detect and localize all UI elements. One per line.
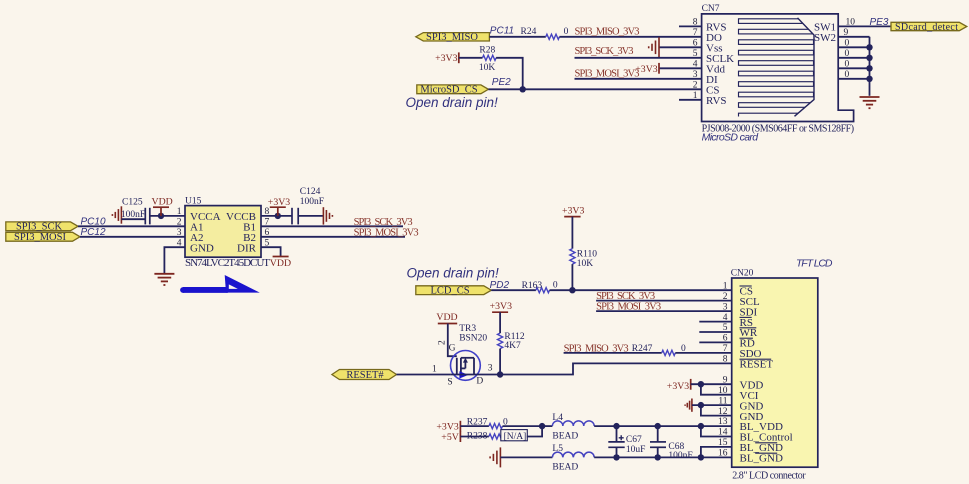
svg-text:C67: C67	[626, 435, 642, 445]
svg-text:SN74LVC2T45DCUT: SN74LVC2T45DCUT	[185, 257, 270, 269]
svg-text:L5: L5	[552, 444, 563, 454]
svg-text:MicroSD card: MicroSD card	[702, 132, 760, 144]
net label SPI3_SCK_3V3 (U15)	[354, 217, 413, 228]
power +3V3 (BL)	[436, 421, 460, 433]
designator TR3	[459, 324, 487, 344]
svg-text:+3V3: +3V3	[435, 53, 457, 64]
text 2.8 inch LCD connector	[732, 470, 806, 481]
port SPI3_MOSI	[6, 232, 80, 243]
junction pin11	[698, 402, 704, 408]
wire U15 pin7 SPI3_SCK_3V3	[261, 225, 403, 227]
svg-text:SPI3_MISO_3V3: SPI3_MISO_3V3	[575, 27, 640, 38]
wire SPI3_MISO to R24	[489, 36, 545, 38]
wire SPI3_MOSI_3V3 to CN7 pin3	[575, 78, 702, 80]
svg-text:7: 7	[693, 28, 698, 38]
power +3V3 (U15 pin8)	[268, 197, 290, 216]
junction C67 bottom	[613, 454, 619, 460]
svg-text:0: 0	[845, 49, 850, 59]
wire R238 to node	[527, 426, 542, 436]
power VDD (DIR)	[270, 258, 291, 269]
junction R237/R238	[539, 423, 545, 429]
power VDD (TR3 gate)	[436, 312, 457, 323]
wire pin9 to pin10	[701, 384, 732, 395]
CN7 pin 1 stub	[679, 99, 702, 101]
sheet entry label PC11	[490, 26, 514, 37]
designator CN7	[702, 4, 720, 14]
svg-text:BEAD: BEAD	[552, 463, 578, 473]
capacitor C67 (polarized)	[608, 426, 645, 457]
wire LCD_CS to R163	[491, 289, 536, 291]
ground below U15	[154, 274, 174, 285]
svg-text:Open drain pin!: Open drain pin!	[407, 266, 500, 281]
CN7 pin10 wire to port	[838, 25, 891, 27]
U15 left pin numbers	[177, 207, 182, 248]
net label SPI3_MISO_3V3	[575, 27, 640, 38]
junction R110/CS	[569, 287, 575, 293]
sheet entry label PC10	[81, 217, 106, 228]
resistor R28	[479, 46, 496, 74]
wire SPI3_MISO_3V3 to R247	[564, 352, 662, 354]
svg-text:0: 0	[553, 281, 558, 291]
svg-text:PE3: PE3	[870, 17, 889, 28]
port SPI3_SCK	[6, 222, 78, 233]
CN20 pin4 stub	[699, 321, 731, 323]
wire R110 to LCD_CS net	[571, 264, 573, 290]
svg-text:C125: C125	[122, 197, 143, 207]
wire SPI3_SCK to U15 pin2	[78, 225, 185, 227]
ground below CN7	[860, 97, 880, 108]
svg-text:SPI3_SCK: SPI3_SCK	[16, 222, 63, 233]
svg-text:R238: R238	[467, 432, 488, 442]
wire R112 to drain	[499, 349, 501, 375]
TR3 gate label G	[449, 343, 456, 353]
svg-text:TFT LCD: TFT LCD	[796, 258, 833, 270]
wire SPI3_SCK_3V3 to CN7 pin5	[575, 57, 702, 59]
svg-text:1: 1	[177, 207, 182, 217]
CN7 left pin numbers	[693, 18, 698, 101]
svg-text:VDD: VDD	[152, 196, 173, 207]
power +5V (BL)	[441, 431, 460, 443]
port SPI3_MISO	[416, 32, 490, 43]
svg-text:10K: 10K	[479, 63, 496, 73]
junction R112-drain	[497, 371, 503, 377]
wire MicroSD_CS to CN7 pin2	[488, 88, 701, 90]
connector CN20 box	[732, 278, 818, 467]
wire U15 pin6 SPI3_MOSI_3V3	[261, 236, 405, 238]
TR3 pin1 label	[432, 365, 437, 375]
inductor L5 BEAD	[552, 444, 594, 473]
wire gnd to C125	[121, 218, 145, 220]
junction dots on card-detect bus	[866, 44, 872, 82]
resistor R112	[498, 332, 525, 351]
resistor R237	[467, 417, 508, 428]
svg-text:1: 1	[693, 91, 698, 101]
sheet entry label PD2	[490, 280, 510, 291]
svg-text:VDD: VDD	[270, 258, 291, 269]
svg-text:LCD_CS: LCD_CS	[430, 285, 469, 296]
svg-text:1: 1	[723, 281, 728, 291]
svg-text:G: G	[449, 343, 456, 353]
wire U15 pin4 GND	[164, 247, 185, 273]
port SDcard_detect	[891, 22, 967, 33]
text Open drain pin! (bottom)	[407, 266, 500, 281]
svg-text:SPI3_MISO: SPI3_MISO	[426, 32, 478, 43]
net label SPI3_SCK_3V3 (CN20)	[596, 291, 655, 302]
port RESET#	[332, 370, 397, 382]
ground at C124	[323, 207, 332, 224]
ground at C125	[112, 206, 121, 223]
svg-text:PE2: PE2	[492, 77, 511, 88]
CN20 pin6 stub	[699, 341, 731, 343]
svg-text:C124: C124	[300, 187, 321, 197]
CN7 SW1 SW2 labels	[814, 21, 836, 44]
wire R247 to CN20 pin7	[675, 352, 731, 354]
power VDD (U15 pin1)	[152, 196, 173, 216]
resistor R110	[570, 249, 597, 269]
svg-text:SPI3_SCK_3V3: SPI3_SCK_3V3	[575, 46, 634, 57]
capacitor C68	[650, 426, 693, 461]
svg-text:CN7: CN7	[702, 4, 720, 14]
svg-text:10K: 10K	[577, 259, 594, 269]
wire pin13 to pin14	[701, 426, 732, 436]
CN7 pin 9 number	[844, 28, 849, 38]
svg-text:+3V3: +3V3	[268, 197, 290, 208]
svg-text:GND: GND	[190, 242, 214, 254]
CN7 right pin stubs	[838, 37, 869, 79]
power +3V3 (CN20 pin9)	[667, 379, 732, 392]
svg-text:[N/A]: [N/A]	[504, 432, 527, 442]
wire R28 to MicroSD_CS net	[496, 58, 523, 90]
svg-text:0: 0	[845, 70, 850, 80]
svg-text:0: 0	[845, 38, 850, 48]
text TFT LCD	[796, 258, 833, 270]
svg-text:9: 9	[844, 28, 849, 38]
wire +3V3 to R237	[460, 425, 489, 427]
text SN74LVC2T45DCUT	[185, 257, 270, 269]
wire RESET# to TR3 source	[397, 374, 451, 376]
TR3 pin3 label	[488, 364, 493, 374]
level-shift arrow	[180, 275, 260, 293]
wire +5V to R238	[460, 436, 489, 438]
svg-text:SDcard_detect: SDcard_detect	[895, 22, 958, 33]
connector CN7 outline	[702, 14, 854, 122]
svg-text:RESET: RESET	[740, 359, 774, 371]
svg-text:BEAD: BEAD	[552, 431, 578, 441]
wire U15 pin5 DIR to VDD	[261, 247, 289, 256]
U15 left pin texts	[190, 211, 221, 254]
wire R24 to CN7 pin7	[559, 36, 701, 38]
TR3 S D labels	[447, 377, 483, 388]
sheet entry label PE2	[492, 77, 511, 88]
svg-text:100nF: 100nF	[668, 451, 692, 461]
svg-text:TR3: TR3	[459, 324, 476, 334]
inductor L4 BEAD	[552, 413, 594, 442]
junction pin8 +3V3	[275, 213, 281, 219]
wire pin11 to pin12	[701, 405, 732, 416]
junction C68 bottom	[655, 454, 661, 460]
wire pin16 to pin15	[701, 447, 732, 458]
svg-text:4K7: 4K7	[504, 341, 521, 351]
ground at L5	[490, 447, 500, 467]
svg-text:R24: R24	[521, 27, 537, 37]
junction VDD-pin1	[158, 213, 164, 219]
svg-text:2: 2	[723, 292, 728, 302]
power +3V3 (R110)	[562, 205, 584, 248]
ground at CN20 pin11	[685, 399, 732, 412]
junction C67 top	[613, 423, 619, 429]
transistor TR3 BSN20	[451, 351, 481, 381]
CN7 pin names	[706, 21, 734, 106]
resistor R24	[521, 27, 569, 39]
CN20 pin names	[740, 285, 793, 464]
wire VDD to TR3 gate	[448, 324, 457, 357]
CN20 pin numbers	[718, 281, 728, 458]
port MicroSD_CS	[417, 85, 489, 96]
svg-text:U15: U15	[185, 196, 202, 206]
resistor R163	[522, 281, 558, 293]
wire C124 to ground	[298, 215, 323, 217]
wire U15 pin8 +3V3	[261, 215, 292, 217]
CN7 pin 8 stub	[679, 25, 702, 27]
svg-text:SPI3_SCK_3V3: SPI3_SCK_3V3	[354, 217, 413, 228]
net label SPI3_MOSI_3V3 (CN20)	[596, 302, 661, 313]
junction BL_VDD pin13	[698, 423, 704, 429]
U15 right pin texts	[226, 211, 257, 254]
svg-text:BL_GND: BL_GND	[740, 453, 783, 465]
wire SPI3_MOSI to U15 pin3	[80, 236, 185, 238]
capacitor C125	[121, 197, 150, 224]
svg-text:100nF: 100nF	[121, 210, 145, 220]
svg-text:1: 1	[432, 365, 437, 375]
svg-text:2.8" LCD connector: 2.8" LCD connector	[732, 470, 806, 481]
resistor R247	[632, 344, 686, 356]
svg-text:10uF: 10uF	[626, 445, 646, 455]
junction pin9	[698, 381, 704, 387]
port LCD_CS	[416, 285, 492, 296]
svg-text:R237: R237	[467, 418, 488, 428]
wire R237 to L4 node	[503, 425, 543, 427]
CN20 pin5 stub	[699, 331, 731, 333]
wire node to L4	[542, 425, 552, 427]
power +3V3 at CN7 pin4	[635, 63, 701, 75]
net label SPI3_SCK_3V3 (CN7)	[575, 46, 634, 57]
designator U15	[185, 196, 202, 206]
TR3 pin2 label	[438, 340, 448, 345]
svg-text:0: 0	[564, 27, 569, 37]
net label SPI3_MISO_3V3 (CN20)	[564, 343, 629, 354]
svg-text:SPI3_MOSI_3V3: SPI3_MOSI_3V3	[354, 227, 419, 238]
svg-text:VDD: VDD	[436, 312, 457, 323]
wire gnd to L5	[500, 456, 552, 458]
net label SPI3_MOSI_3V3 (CN7)	[575, 68, 640, 79]
svg-text:2: 2	[438, 340, 448, 345]
power +3V3 (R112)	[490, 301, 512, 333]
junction BL_GND pin16	[698, 454, 704, 460]
capacitor C124	[292, 187, 324, 224]
svg-text:D: D	[476, 377, 483, 387]
svg-text:SW2: SW2	[814, 32, 836, 44]
net label SPI3_MOSI_3V3 (U15)	[354, 227, 419, 238]
junction on MicroSD_CS	[520, 86, 526, 92]
wire L4 to BL_VDD rail	[594, 425, 732, 427]
designator CN20	[731, 269, 754, 279]
text PJS008-2000	[702, 123, 855, 134]
text MicroSD card	[702, 132, 760, 144]
svg-text:R28: R28	[479, 46, 495, 56]
svg-text:+3V3: +3V3	[667, 381, 689, 392]
IC U15 box	[185, 206, 261, 258]
sheet entry label PE3	[870, 17, 889, 28]
svg-text:BSN20: BSN20	[459, 334, 487, 344]
U15 right pin numbers	[265, 207, 270, 248]
svg-text:SPI3_MOSI: SPI3_MOSI	[14, 232, 66, 243]
microSD card symbol stripes	[739, 18, 815, 118]
text Open drain pin! (top)	[406, 95, 499, 110]
wire TR3 drain to CN20 pin8	[474, 363, 732, 374]
svg-text:+3V3: +3V3	[436, 421, 458, 432]
wire C125 to U15 pin1	[150, 215, 185, 217]
svg-text:0: 0	[845, 59, 850, 69]
power +3V3 (R28 pullup)	[435, 52, 482, 64]
svg-text:+3V3: +3V3	[490, 301, 512, 312]
svg-text:R247: R247	[632, 344, 653, 354]
svg-text:3: 3	[723, 302, 728, 312]
svg-text:10: 10	[846, 17, 856, 27]
svg-text:+5V: +5V	[441, 432, 459, 443]
svg-text:3: 3	[488, 364, 493, 374]
svg-text:2: 2	[693, 81, 698, 91]
wire R163 to CN20 pin1	[550, 289, 732, 291]
svg-text:RESET#: RESET#	[346, 370, 384, 381]
wire L5 to BL_GND rail	[594, 456, 732, 458]
CN7 card-detect bus wire	[869, 37, 871, 96]
svg-text:L4: L4	[552, 413, 563, 423]
junction C68 top	[655, 423, 661, 429]
svg-text:S: S	[447, 378, 452, 388]
CN7 right pin 0 labels	[845, 38, 850, 80]
resistor R238	[467, 430, 528, 442]
svg-text:+3V3: +3V3	[562, 205, 584, 216]
svg-text:Open drain pin!: Open drain pin!	[406, 95, 499, 110]
CN7 pin 10 number	[846, 17, 856, 27]
svg-text:8: 8	[693, 18, 698, 28]
sheet entry label PC12	[81, 227, 106, 238]
svg-text:PC11: PC11	[490, 26, 514, 37]
svg-text:R163: R163	[522, 281, 543, 291]
svg-text:SPI3_MOSI_3V3: SPI3_MOSI_3V3	[575, 68, 640, 79]
wire SPI3_SCK_3V3 to CN20 pin2	[596, 300, 732, 302]
wire SPI3_MOSI_3V3 to CN20 pin3	[596, 310, 732, 312]
svg-text:100nF: 100nF	[300, 197, 324, 207]
svg-text:RVS: RVS	[706, 95, 727, 107]
svg-text:CN20: CN20	[731, 269, 754, 279]
ground at CN7 pin6 Vss	[649, 37, 702, 57]
svg-text:DIR: DIR	[237, 242, 257, 254]
